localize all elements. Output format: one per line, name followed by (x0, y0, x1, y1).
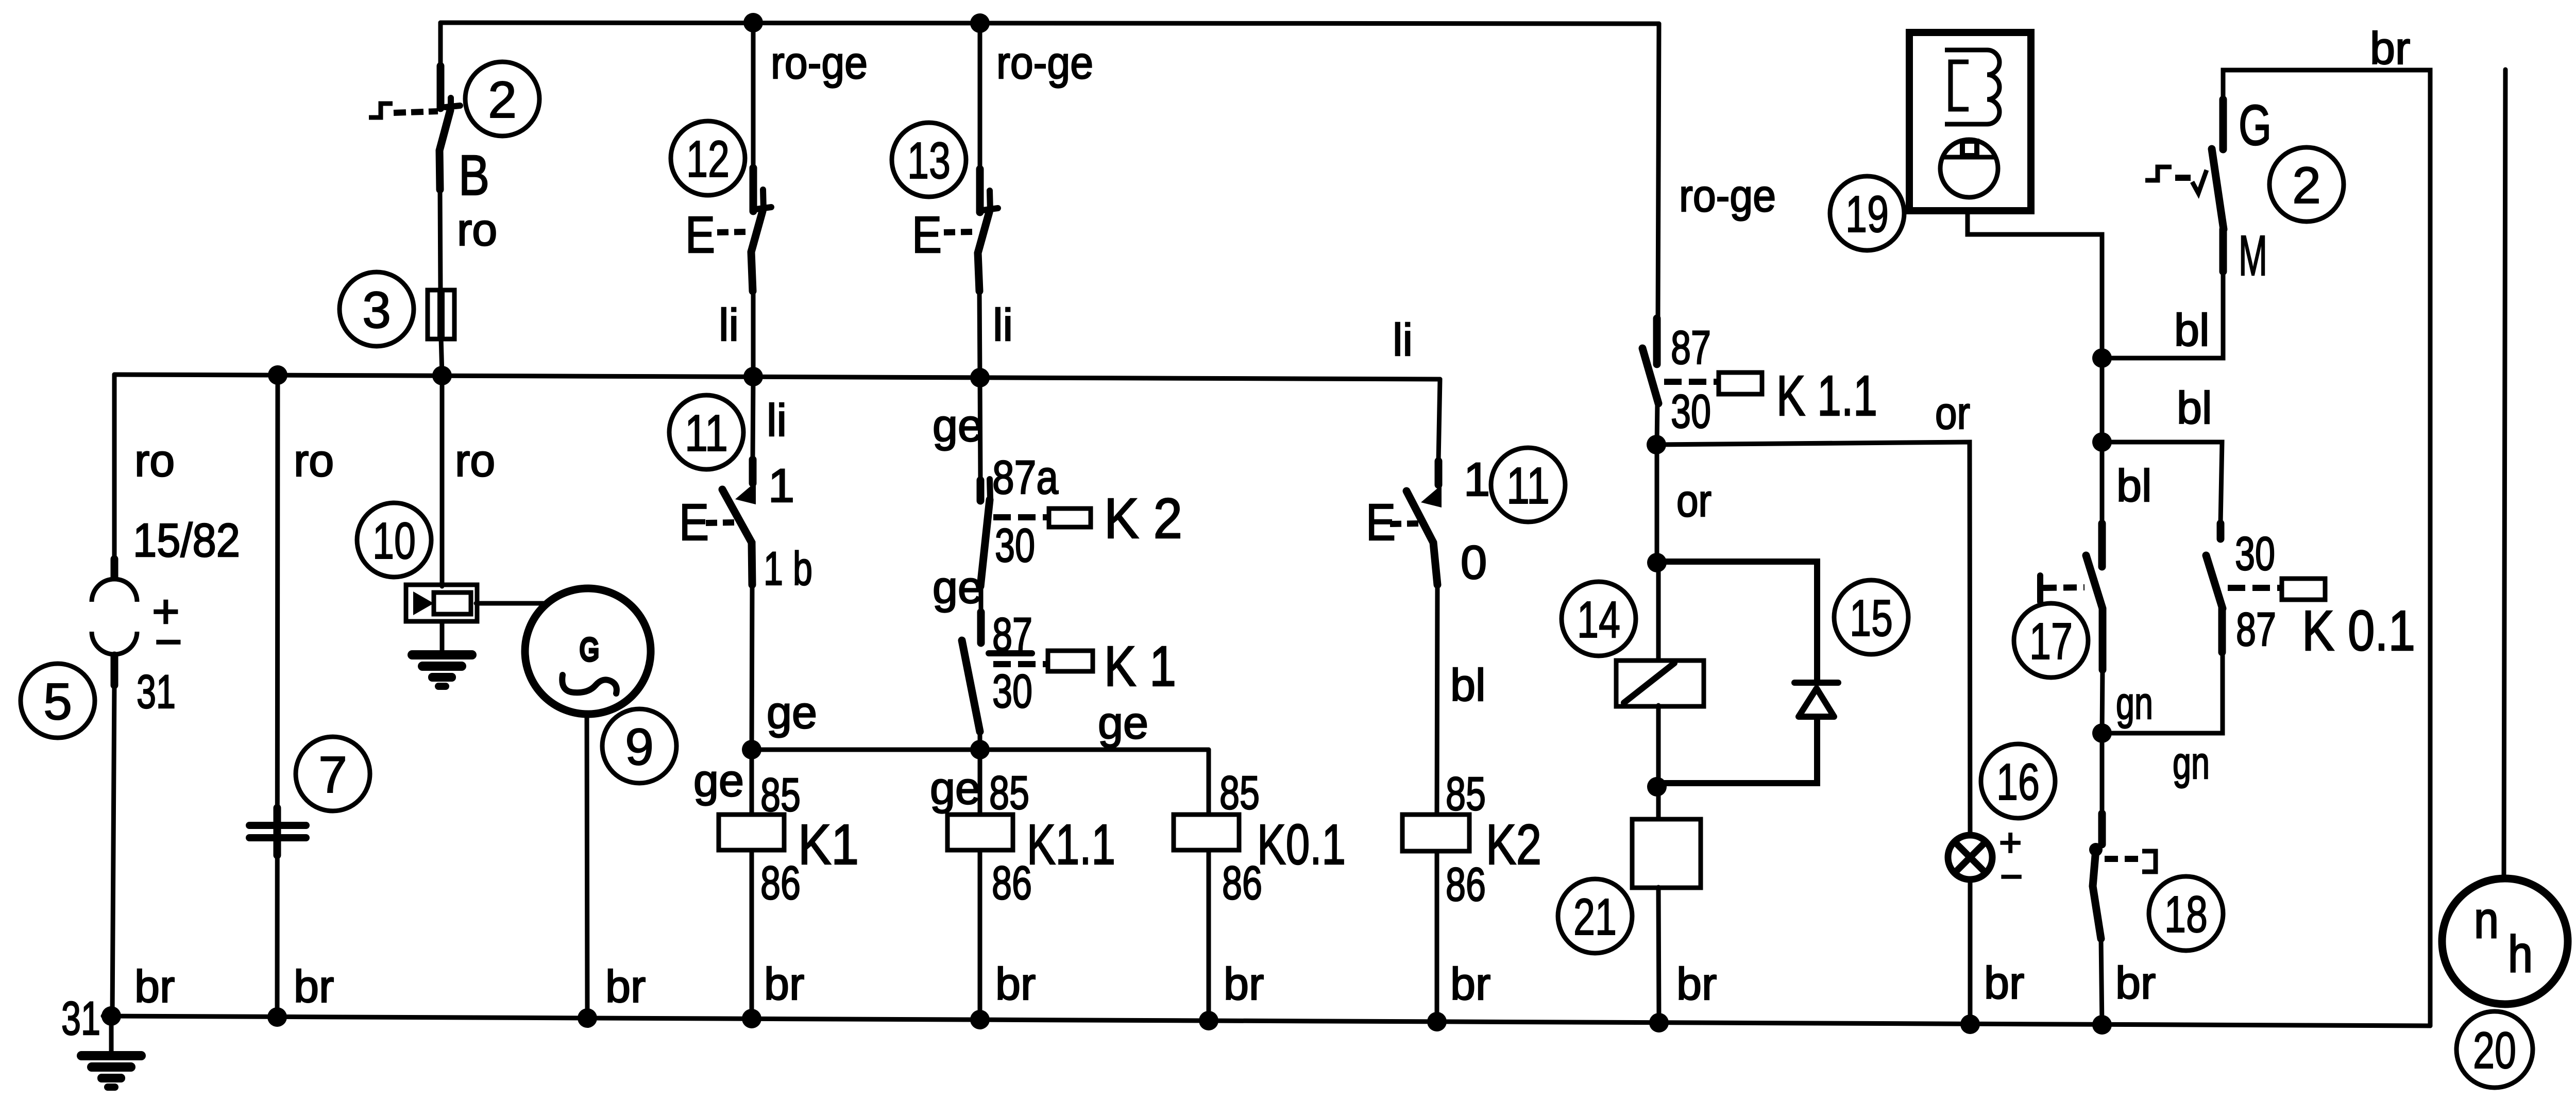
svg-text:14: 14 (1577, 591, 1620, 649)
svg-text:ro: ro (455, 435, 495, 486)
wire ge bus corner down to relay K0.1 (1207, 750, 1211, 815)
svg-text:86: 86 (760, 857, 801, 909)
svg-text:1 b: 1 b (764, 543, 812, 595)
wire generator to ground bus (587, 714, 587, 1017)
wire column 12 mid (751, 291, 756, 376)
switch 2 right (G/M) contact stub G (2219, 99, 2227, 149)
wire fuse to li bus (441, 337, 442, 375)
switch 2 (B) actuator dashes (394, 111, 438, 113)
capacitor 7 plate bottom (249, 834, 306, 841)
connector 5 upper stub (111, 559, 118, 577)
label circle 9 (602, 709, 676, 783)
switch 11 left contact stub (749, 460, 757, 483)
svg-text:bl: bl (2177, 382, 2212, 433)
wire switch 18 to ground bus (2101, 939, 2102, 1025)
node or below contact K1.1 (1647, 435, 1666, 454)
resistor 21 box (1632, 819, 1701, 888)
wire component 10 to its ground (440, 621, 445, 653)
svg-text:li: li (719, 299, 739, 350)
switch 12 contact stub (750, 168, 757, 211)
ground bottom left bars (77, 1051, 146, 1091)
svg-text:br: br (2370, 23, 2410, 74)
box 19 (1909, 32, 2031, 211)
box 19 gauge notch (1962, 141, 1977, 156)
node gn junction (2092, 723, 2112, 743)
connector 5 lower arc (92, 632, 137, 654)
label circle 18 (2149, 876, 2223, 951)
svg-text:2: 2 (2292, 157, 2321, 214)
svg-text:or: or (1676, 475, 1711, 526)
svg-text:2: 2 (488, 71, 517, 129)
svg-text:ro-ge: ro-ge (771, 37, 868, 88)
label circle 19 (1830, 176, 1904, 250)
svg-text:br: br (995, 958, 1036, 1009)
switch 12 blade tick (756, 207, 771, 209)
svg-text:30: 30 (2235, 528, 2275, 580)
svg-text:B: B (459, 144, 489, 207)
diode 15 cathode bar (1794, 680, 1838, 686)
svg-text:30: 30 (1671, 385, 1711, 438)
node ground bus K2 (1427, 1012, 1447, 1031)
wire ge bus to relay K1 (750, 750, 754, 815)
wire junction gn down to switch 18 (2100, 733, 2105, 814)
svg-text:−: − (155, 616, 182, 668)
switch 13 actuator dashes (944, 232, 972, 232)
svg-text:G: G (2239, 94, 2272, 157)
node ground bus K1 (742, 1009, 761, 1028)
node ground bus lamp 16 (1960, 1014, 1980, 1034)
relay coil K1 (719, 815, 784, 850)
svg-text:br: br (605, 961, 646, 1012)
svg-text:K 0.1: K 0.1 (2302, 599, 2415, 663)
wire below switch 2 to fuse (440, 190, 440, 292)
contact K1.1 stub (1653, 318, 1661, 364)
lamp 16 cross (1955, 842, 1986, 873)
switch 2 (B) blade (439, 110, 450, 190)
node ground bus K0.1 (1199, 1011, 1218, 1030)
fuse 3 (428, 290, 454, 339)
label circle 11 right (1491, 448, 1565, 522)
ground bottom left stem (109, 1019, 114, 1055)
contact K0.1 blade (2206, 555, 2223, 608)
svg-text:ge: ge (933, 400, 983, 451)
contact K2 87a stub (977, 480, 985, 501)
svg-text:21: 21 (1573, 888, 1617, 946)
tachometer 20 circle (2442, 878, 2568, 1004)
svg-text:E: E (679, 494, 709, 551)
wire relay 14 to loop bottom (1656, 705, 1661, 787)
wire resistor 21 to ground bus (1658, 887, 1659, 1023)
switch 17 actuator dashes (2043, 587, 2084, 588)
contact K2 dashes (993, 514, 1049, 520)
svg-text:n: n (2474, 891, 2499, 949)
wire ge bus (752, 748, 1209, 752)
contact K2 blade nub (990, 479, 990, 499)
switch 18 pivot (2089, 843, 2103, 856)
svg-text:86: 86 (1446, 858, 1486, 911)
box 19 coil core bracket (1951, 62, 1969, 109)
svg-text:85: 85 (1219, 767, 1260, 819)
generator sine wave (562, 675, 617, 693)
svg-text:li: li (1393, 314, 1413, 365)
svg-text:li: li (767, 395, 787, 446)
svg-text:br: br (2115, 957, 2156, 1008)
svg-text:ro: ro (294, 435, 334, 486)
node li bus col 12 (743, 367, 763, 386)
wire bottom ground bus 31 (103, 1016, 2430, 1026)
wire battery column bottom (112, 683, 114, 1016)
node bl contact K0.1 branch (2092, 432, 2112, 452)
box 19 winding (1945, 50, 1999, 124)
label circle 2 left (465, 62, 539, 136)
svg-text:M: M (2239, 224, 2267, 287)
svg-text:K2: K2 (1486, 813, 1541, 876)
switch 13 blade tick (983, 208, 998, 210)
switch 12 blade (751, 211, 762, 291)
wire loop top to relay 14 (1656, 563, 1661, 661)
svg-text:ge: ge (1098, 697, 1148, 748)
svg-text:G: G (580, 632, 599, 668)
wire column 13 mid (979, 291, 980, 378)
label circle 17 (2014, 603, 2088, 678)
svg-text:11: 11 (685, 404, 728, 462)
contact K1 blade (962, 640, 980, 732)
relay 14 diagonal (1624, 663, 1674, 703)
label circle 10 (357, 503, 431, 577)
switch 11 right triangle (1421, 485, 1442, 507)
svg-text:ro: ro (457, 204, 497, 255)
label circle 14 (1562, 582, 1636, 656)
node bl switch M branch (2092, 348, 2112, 368)
switch 17 blade (2086, 555, 2103, 670)
wire switch 17 to junction gn (2102, 670, 2103, 733)
contact K1 87 stub (977, 612, 985, 643)
label circle 16 (1981, 744, 2055, 818)
contact K1 fraction bar (989, 650, 1032, 656)
svg-text:31: 31 (137, 666, 176, 718)
svg-text:br: br (1984, 957, 2024, 1008)
wire switch 11 left to ge bus (752, 585, 752, 750)
switch 2 right blade (2212, 149, 2224, 229)
generator 9 circle (525, 588, 651, 714)
switch 11 left triangle (735, 482, 756, 504)
svg-text:16: 16 (1996, 753, 2040, 811)
wire loop bottom to resistor 21 (1656, 787, 1661, 819)
svg-text:br: br (134, 961, 175, 1012)
svg-text:85: 85 (760, 769, 801, 821)
connector 5 upper arc (92, 579, 137, 602)
wire ge bus to relay K1.1 (978, 750, 982, 815)
node ground bus K1.1 (970, 1010, 990, 1029)
svg-text:87: 87 (1671, 321, 1711, 374)
wire column 12 top (751, 23, 756, 169)
svg-text:gn: gn (2173, 737, 2210, 788)
wire bl branch to switch M (2102, 272, 2223, 358)
svg-text:86: 86 (992, 857, 1032, 909)
node diode loop bottom (1647, 777, 1667, 797)
node ge bus K1.1 (970, 740, 990, 759)
label circle 7 (296, 737, 370, 811)
wire column 13 top (978, 23, 982, 170)
svg-text:K0.1: K0.1 (1257, 813, 1346, 876)
wire li bus corner down to switch 11 right (1438, 379, 1440, 461)
component 10 arrow (413, 591, 434, 615)
svg-text:15: 15 (1850, 589, 1893, 647)
svg-text:1: 1 (768, 460, 794, 512)
svg-text:h: h (2508, 925, 2533, 983)
node ground bus resistor 21 (1649, 1013, 1669, 1033)
wire relay K2 to ground bus (1435, 852, 1439, 1019)
svg-text:12: 12 (686, 130, 730, 188)
svg-text:87a: 87a (992, 451, 1059, 504)
wire node or down to diode loop (1655, 445, 1659, 563)
label circle 11 left (669, 395, 743, 469)
svg-text:−: − (2000, 855, 2023, 899)
svg-text:15/82: 15/82 (133, 514, 240, 567)
svg-text:bl: bl (2174, 304, 2210, 356)
svg-text:1: 1 (1464, 453, 1490, 506)
switch 11 right actuator dashes (1390, 523, 1418, 524)
switch 12 actuator dashes (717, 232, 745, 232)
wire contact K1.1 blade to node (1657, 402, 1657, 445)
ELEMENTS (21, 62, 676, 1091)
capacitor 7 feedthrough stubs (274, 808, 281, 855)
contact K0.1 stub 30 (2217, 523, 2225, 539)
contact K1.1 coil box (1719, 373, 1762, 394)
wire relay K0.1 to ground bus (1207, 850, 1211, 1017)
contact K2 blade (980, 500, 990, 586)
diode 15 triangle (1799, 688, 1834, 717)
node diode loop top (1647, 553, 1667, 572)
switch 2 (B) actuator hook (369, 104, 393, 117)
switch 2 right contact stub M (2219, 229, 2227, 272)
wire box 19 stub (1968, 211, 2102, 523)
svg-text:E: E (912, 206, 942, 264)
svg-text:0: 0 (1461, 536, 1487, 589)
label circle 12 (671, 121, 745, 195)
svg-text:K 1: K 1 (1104, 635, 1176, 698)
svg-text:20: 20 (2473, 1022, 2516, 1079)
svg-text:ro-ge: ro-ge (1679, 170, 1776, 221)
node top bus col 13 (970, 13, 990, 33)
svg-text:bl: bl (2116, 460, 2152, 511)
wire top bus (440, 23, 1659, 24)
switch 11 right contact stub (1435, 461, 1443, 485)
contact K1.1 blade (1642, 348, 1658, 403)
wire second bus (li bus) (114, 375, 1440, 379)
relay coil K0.1 (1174, 815, 1239, 850)
svg-text:10: 10 (372, 512, 416, 570)
svg-text:ge: ge (767, 687, 817, 738)
wire far right to tachometer 20 (2504, 70, 2505, 876)
svg-text:30: 30 (992, 665, 1032, 718)
switch 18 actuator bracket (2142, 851, 2156, 872)
switch 13 blade (978, 212, 989, 291)
svg-text:85: 85 (1446, 768, 1486, 820)
svg-text:br: br (1224, 958, 1264, 1009)
contact K1 coil box (1048, 651, 1093, 671)
label circle 21 (1558, 879, 1632, 953)
svg-text:ro-ge: ro-ge (996, 37, 1093, 88)
wire component 10 to generator (476, 601, 544, 606)
connector 5 lower stub (111, 655, 118, 685)
label circle 2 right (2269, 147, 2344, 222)
switch 11 left actuator dashes (706, 522, 734, 523)
wire relay K1.1 to ground bus (978, 850, 982, 1017)
switch 17 actuator tick (2037, 576, 2043, 602)
svg-text:7: 7 (318, 746, 347, 804)
svg-text:br: br (294, 961, 334, 1012)
svg-text:br: br (764, 958, 804, 1009)
switch 13 contact stub (976, 169, 984, 212)
switch 2 (B) blade nub (448, 98, 454, 110)
capacitor 7 plate top (249, 822, 306, 829)
switch 11 right blade (1406, 491, 1437, 585)
node ground bus battery (101, 1006, 121, 1026)
switch 11 left blade (722, 489, 752, 585)
svg-text:3: 3 (362, 281, 391, 339)
node ground bus generator (578, 1008, 597, 1028)
svg-text:ge: ge (693, 755, 744, 806)
wire between contact K2 and contact K1 (979, 586, 984, 613)
node li bus capacitor (268, 365, 287, 385)
label circle 13 (892, 123, 966, 197)
contact K1.1 dashes (1664, 379, 1720, 385)
svg-text:19: 19 (1845, 185, 1889, 243)
contact K0.1 coil box (2282, 579, 2325, 600)
switch 18 contact stub (2098, 814, 2106, 844)
box 19 gauge circle (1940, 140, 1998, 197)
svg-text:86: 86 (1222, 857, 1262, 909)
svg-text:br: br (1676, 958, 1717, 1009)
svg-text:18: 18 (2164, 886, 2208, 943)
switch 17 contact stub (2098, 523, 2106, 567)
wire switch 11 right to relay K2 (1437, 585, 1437, 815)
svg-text:30: 30 (995, 519, 1035, 572)
node top bus col 12 (743, 13, 763, 32)
svg-text:13: 13 (907, 132, 951, 190)
wire fuse column top (switch 2 to fuse) (438, 23, 443, 67)
svg-text:K1: K1 (798, 813, 859, 876)
wire capacitor column (277, 375, 278, 1016)
node ground bus capacitor (267, 1007, 287, 1027)
contact K2 coil box (1049, 509, 1091, 527)
svg-text:9: 9 (625, 718, 654, 776)
svg-text:br: br (1450, 958, 1490, 1009)
wire column 12 below li bus (753, 377, 753, 460)
switch 18 actuator dashes (2105, 856, 2139, 862)
wire relay K1 to ground bus (750, 850, 754, 1017)
box 19 gauge chord (1943, 155, 1995, 160)
wire br bus top right (2223, 70, 2430, 1026)
switch 2 (B) contact stub (437, 66, 445, 108)
svg-text:31: 31 (61, 992, 100, 1045)
svg-text:K 1.1: K 1.1 (1776, 364, 1877, 428)
component 10 box (406, 585, 477, 621)
svg-text:K1.1: K1.1 (1027, 813, 1115, 876)
svg-text:ge: ge (933, 562, 983, 613)
relay coil K1.1 (947, 815, 1013, 850)
label circle 20 (2456, 1011, 2533, 1088)
component 10 flag (434, 593, 471, 614)
svg-text:85: 85 (989, 767, 1029, 819)
label circle 5 (21, 664, 95, 738)
fuse 3 center wire (437, 290, 445, 339)
svg-text:ro: ro (134, 435, 175, 486)
svg-text:E: E (685, 206, 715, 264)
wire ro-ge column down to contact K1.1 (1658, 24, 1659, 318)
lamp 16 circle (1948, 835, 1992, 879)
switch 12 blade nub (763, 190, 764, 210)
svg-text:gn: gn (2116, 678, 2153, 729)
svg-text:or: or (1935, 387, 1970, 438)
switch 2 right actuator dash (2175, 175, 2191, 181)
node ge bus K1 (742, 740, 761, 759)
node ground bus switch 18 (2092, 1015, 2112, 1035)
svg-text:ge: ge (930, 763, 980, 814)
relay 14 box (1616, 661, 1704, 706)
svg-text:87: 87 (2236, 603, 2276, 656)
svg-text:5: 5 (43, 673, 72, 731)
node li bus fuse column (432, 366, 452, 385)
wire junction gn to contact K0.1 (2102, 652, 2223, 733)
switch 13 blade nub (990, 191, 990, 211)
switch 2 right actuator hook (2145, 167, 2172, 180)
diode loop top (1657, 562, 1817, 682)
relay coil K2 (1402, 815, 1469, 851)
switch 2 right actuator check (2192, 170, 2207, 193)
wire or branch to lamp 16 (1656, 442, 1970, 835)
ground component 10 bars (408, 650, 477, 690)
svg-text:K 2: K 2 (1104, 487, 1182, 550)
svg-text:17: 17 (2029, 613, 2073, 670)
svg-text:li: li (993, 299, 1013, 350)
switch 2 (B) blade tick (445, 106, 460, 107)
contact K1 dashes (993, 661, 1048, 667)
contact K0.1 bottom stub (2218, 608, 2226, 652)
wire lamp 16 to ground bus (1968, 880, 1973, 1022)
wire battery column top (112, 375, 117, 563)
wire bl branch to contact K0.1 30 (2102, 442, 2222, 523)
node li bus col 13 (970, 368, 990, 387)
wire column 13 below li bus (980, 378, 980, 481)
wire li bus down to component 10 (440, 375, 445, 586)
diode loop bottom (1657, 717, 1817, 783)
svg-text:bl: bl (1450, 659, 1486, 710)
switch 18 blade (2093, 850, 2101, 939)
label circle 15 (1834, 580, 1908, 654)
wire contact K1 blade to ge bus (978, 732, 982, 750)
svg-text:11: 11 (1506, 457, 1550, 515)
label circle 3 (340, 272, 414, 346)
contact K0.1 dashes (2228, 585, 2283, 591)
